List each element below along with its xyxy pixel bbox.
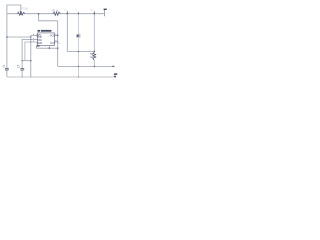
wire rail-to-bus y37	[7, 36, 31, 38]
IC pin number below box	[37, 45, 40, 46]
junction dots	[6, 13, 95, 78]
wire y51.5	[67, 51, 94, 53]
IC U1 label	[38, 30, 41, 32]
ground symbol	[114, 73, 117, 74]
junction stub x67.3	[66, 11, 68, 13]
svg-text:P1 5k: P1 5k	[22, 9, 29, 11]
wire top loop	[7, 5, 21, 14]
svg-text:OUT: OUT	[50, 42, 56, 45]
svg-text:R2 1k: R2 1k	[52, 10, 59, 12]
capacitor C1 plates	[5, 69, 9, 70]
label C2 value row	[17, 64, 19, 67]
wire vertical x94.3	[93, 14, 95, 67]
wire pin1 left y35.4	[31, 34, 38, 36]
arrow tip end of y66.4 wire	[112, 65, 114, 67]
resistor R3 body vertical	[93, 53, 96, 61]
wire vertical x78.4	[77, 14, 79, 77]
capacitor C3 plates	[76, 35, 80, 37]
potentiometer R1 wiper arrow	[20, 12, 22, 14]
wire branch top	[39, 14, 58, 21]
wire bus x30.8	[30, 35, 32, 77]
capacitor C2 plates	[20, 69, 24, 70]
wire stub x104.5	[104, 10, 106, 16]
resistor R2 body	[53, 12, 60, 15]
IC U1 box	[37, 33, 54, 46]
svg-text:GND: GND	[37, 42, 43, 45]
resistor R3 peak nubs	[93, 53, 96, 59]
pin number marks left of box	[33, 34, 60, 44]
wire pin3 left x24.9	[25, 42, 38, 61]
wire IC bottom y48.2	[36, 46, 57, 49]
wire left rail	[6, 14, 8, 77]
resistor R2 peak nubs	[54, 12, 60, 16]
svg-text:VCC: VCC	[50, 34, 55, 37]
wire vertical x57.7	[57, 21, 59, 67]
wire bottom rail	[7, 76, 114, 78]
junction stub x78.4	[77, 12, 79, 14]
wire pin right y35.5	[54, 35, 57, 37]
wire top rail	[7, 13, 105, 15]
potentiometer R1 body	[17, 12, 25, 15]
junction stub x94.3	[93, 11, 95, 13]
wire pin right y41.8	[54, 41, 57, 43]
power flag VCC	[104, 9, 107, 10]
wire bottom mid y66.4	[58, 65, 115, 67]
wire vertical x67.3	[66, 14, 68, 52]
label C1 value row	[3, 64, 5, 67]
wire y60.7	[22, 60, 31, 62]
wire pin2 left to C2 y39.4	[22, 39, 37, 77]
